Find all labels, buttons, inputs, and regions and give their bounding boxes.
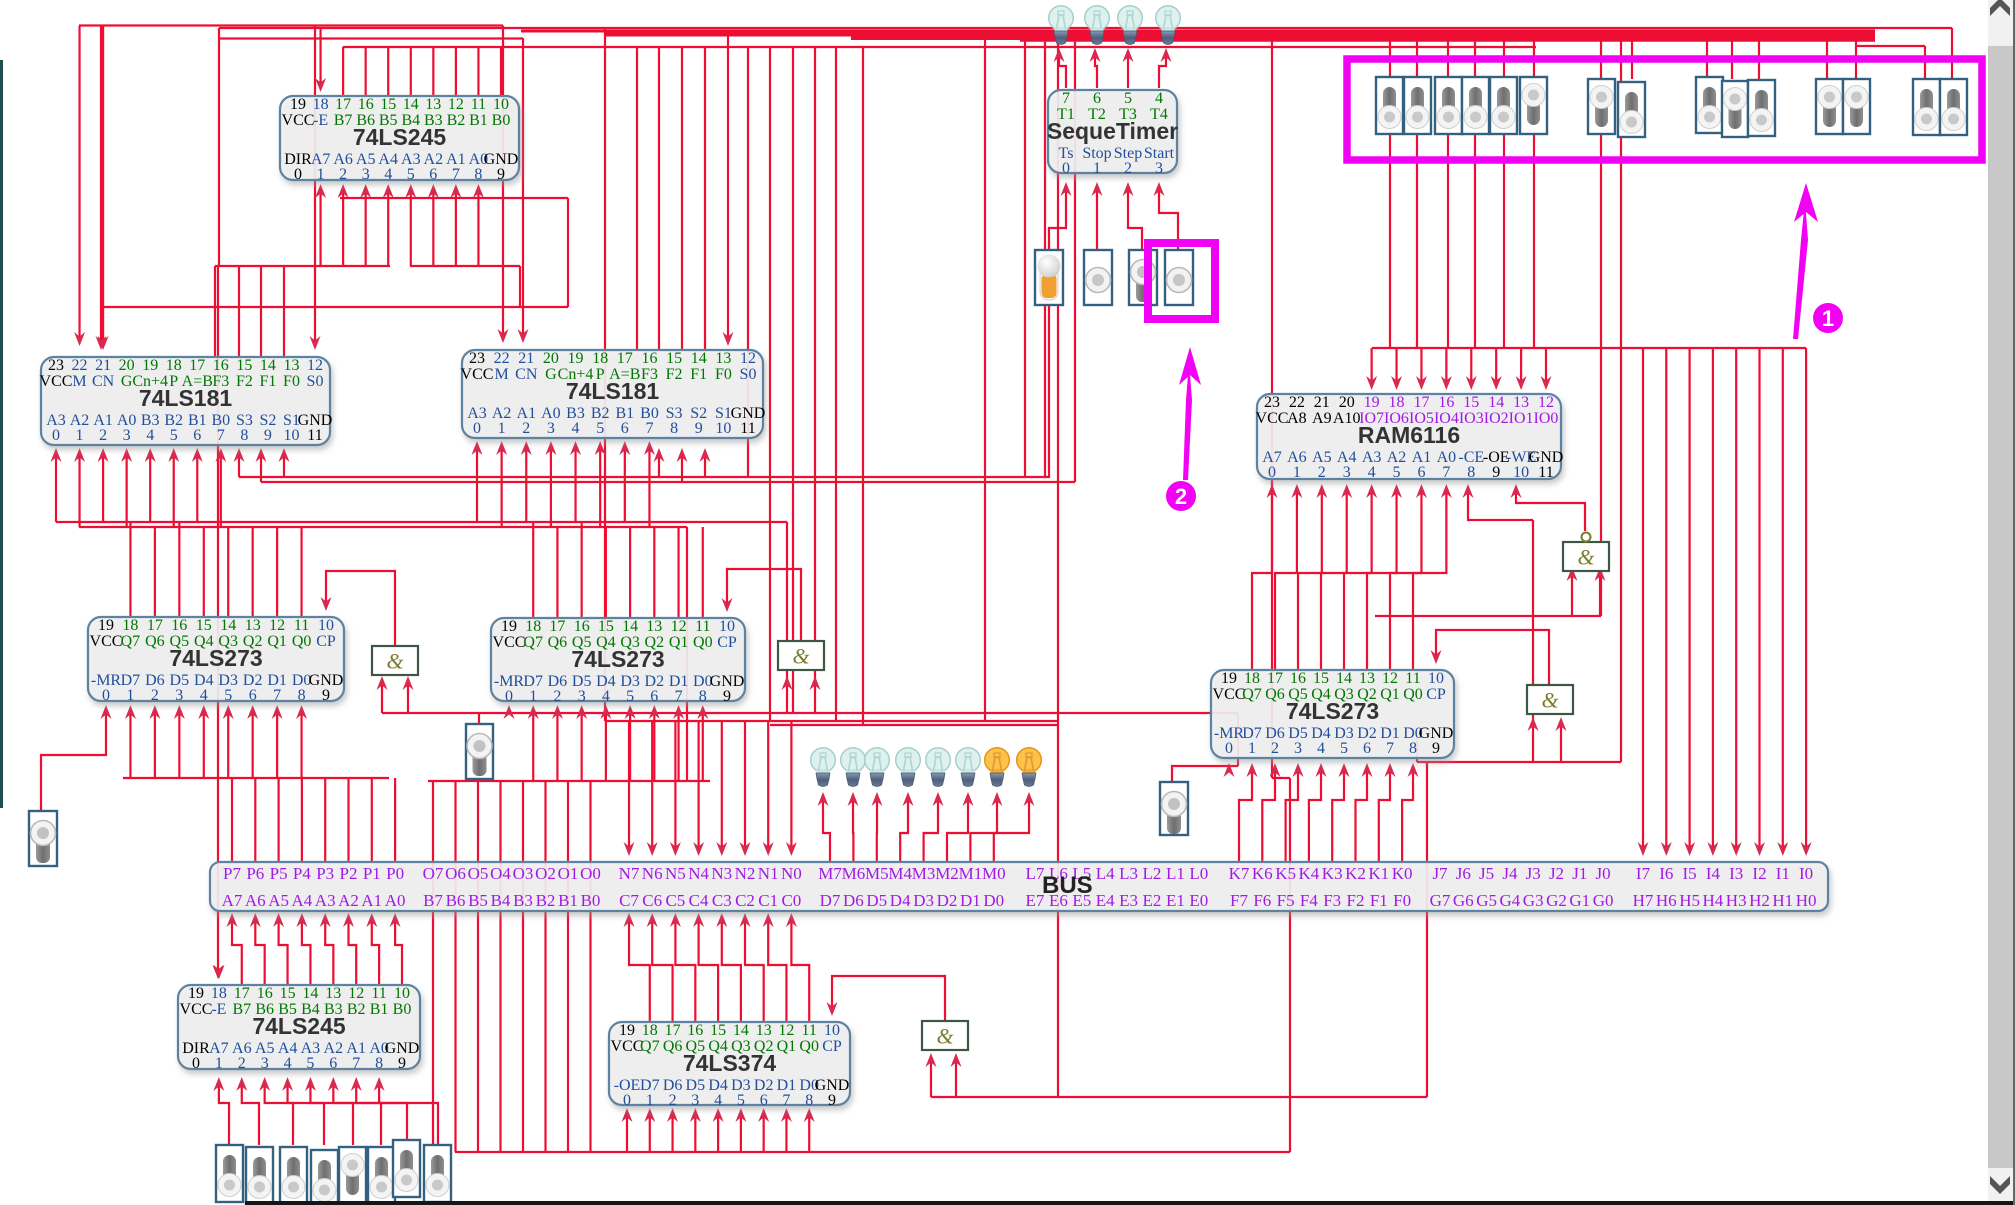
wire G2 output to 273#2 CP (727, 569, 801, 640)
switch S10 (1722, 81, 1748, 137)
annotation marker 2 (1166, 481, 1196, 511)
wire 181#2 F outputs to trunk y57 (636, 47, 638, 350)
lamp T2 (1085, 6, 1110, 45)
button Step (1129, 250, 1157, 305)
lamp T4 (1156, 6, 1181, 45)
wire trunk y1097 (G5) (931, 1096, 1427, 1098)
switch S14 (1913, 79, 1940, 135)
svg-text:1: 1 (1822, 306, 1834, 331)
wire 273#3 Q to RAM A pins (1252, 490, 1272, 670)
wire bus A group zigzag to 245#3 B pins (232, 919, 242, 985)
lamp M0 (1017, 748, 1042, 787)
wire BUS I feeds (1642, 348, 1644, 850)
IC 74LS245 U9 (178, 985, 420, 1069)
annotation arrow 2 (1183, 362, 1192, 480)
wire x1058 x1290 x1427 links (1289, 778, 1291, 1152)
button B3 (1160, 782, 1188, 835)
wire G1 output to 273#1 CP (326, 571, 395, 646)
wire 245#3 -E feed (214, 965, 225, 979)
switch S1 (1376, 77, 1403, 134)
wire RAM -CE feed from G3 riser (1468, 490, 1533, 520)
annotation rect 2 (1148, 243, 1215, 319)
wire G3 output to 273#3 CP (1436, 630, 1549, 685)
wire x1601 to G4 inputs (1600, 132, 1602, 616)
wire trunk y522/y527 (ALU inputs / 273 outputs) (56, 521, 787, 523)
annotation arrow 1 (1793, 200, 1808, 339)
lamp M7 (811, 748, 836, 787)
svg-text:2: 2 (1175, 484, 1187, 509)
switch S5 (1490, 77, 1517, 134)
svg-text:74LS273: 74LS273 (571, 646, 664, 672)
NAND gate G4 (1563, 533, 1609, 572)
switch D0 (424, 1145, 451, 1202)
IC 74LS181 U2 (41, 357, 330, 445)
switch S11 (1748, 80, 1775, 136)
svg-text:SequeTimer: SequeTimer (1047, 118, 1178, 144)
svg-text:74LS273: 74LS273 (169, 645, 262, 671)
wire comb trunk y348 (1372, 347, 1806, 349)
AND gate G2 (778, 641, 824, 670)
button Start (1165, 250, 1193, 305)
wire G1 inputs (381, 682, 383, 713)
IC 74LS273 U5 (491, 618, 745, 701)
switch S2 (1404, 77, 1431, 134)
wire button3 to -MR riser (1172, 766, 1229, 782)
button B2 (466, 724, 493, 779)
canvas left border (0, 60, 3, 808)
svg-text:&: & (386, 649, 404, 674)
wire trunk S-pins y477/y482 (239, 476, 1050, 478)
wire 273#3 -MR feed (1237, 713, 1239, 766)
lamp M6 (841, 748, 866, 787)
svg-text:74LS181: 74LS181 (566, 378, 660, 404)
wire bulbs to bus M (823, 798, 830, 862)
svg-text:BUS: BUS (1042, 872, 1093, 899)
button Stop (1084, 250, 1112, 305)
wire G2 inputs / trunk y713 (382, 712, 1238, 714)
wire switch up-wires to band (1389, 40, 1391, 80)
annotation rect 1 (1347, 59, 1982, 160)
svg-text:&: & (1577, 545, 1595, 570)
switch D3 (339, 1147, 366, 1204)
lamp T3 (1118, 6, 1143, 45)
lamp M5 (865, 748, 890, 787)
IC RAM6116 U7 (1257, 394, 1561, 479)
AND gate G5 (922, 1021, 968, 1050)
wire 374 D feeds from trunk (626, 1114, 628, 1152)
wire vertical band to trunk y266 (218, 28, 220, 266)
IC 74LS273 U4 (88, 617, 344, 701)
button B1 (29, 811, 57, 866)
wire bus C zigzag to 374 Q pins (629, 919, 650, 1022)
wire G5 output to 374 CP (832, 976, 945, 1021)
wire G4 output to RAM -WE (1516, 490, 1585, 531)
svg-text:RAM6116: RAM6116 (1358, 422, 1460, 448)
svg-text:74LS374: 74LS374 (683, 1050, 777, 1076)
AND gate G3 (1527, 685, 1573, 714)
wire trunk y266 (181#1 F outputs to 245#1 A pins) (215, 265, 390, 267)
switch S15 (1940, 79, 1967, 135)
svg-text:74LS245: 74LS245 (252, 1013, 346, 1039)
switch S12 (1816, 79, 1843, 134)
switch S13 (1843, 79, 1870, 134)
wire trunk y1157 (455, 1151, 1290, 1153)
wire trunk y307 (101, 306, 568, 308)
lamp M3 (926, 748, 951, 787)
wire trunk y266b (410, 265, 520, 267)
switch S7 (1588, 79, 1615, 134)
IC 74LS374 U8 (609, 1022, 850, 1105)
switch D7 (216, 1145, 243, 1202)
AND gate G1 (372, 646, 418, 675)
svg-text:&: & (936, 1024, 954, 1049)
switch S4 (1462, 77, 1489, 134)
wire x1621 to G3 inputs (1620, 40, 1622, 763)
wire button1 to 273#1 -MR (41, 711, 106, 811)
switch D6 (246, 1147, 273, 1204)
svg-text:74LS181: 74LS181 (139, 385, 233, 411)
wire 181#2 S0 feed (727, 34, 729, 340)
IC 74LS245 U1 (280, 96, 519, 180)
wire bottom switches to 245#3 A pins (219, 1083, 229, 1145)
wire 273#2 D trunk y781 (428, 780, 710, 782)
wire long vertical F3/-E chain x218 (217, 266, 219, 973)
lamp M1 (985, 748, 1010, 787)
svg-text:&: & (1541, 688, 1559, 713)
switch D4 (311, 1150, 338, 1205)
wire left verticals into 74LS181 #1 (78, 26, 80, 341)
wire SequeTimer T outputs to top bulbs (1059, 54, 1066, 88)
wire 273#1 D trunk y778 (123, 777, 389, 779)
switch Ts (on) (1035, 250, 1063, 305)
wire -E feed 74LS245 #1 (319, 28, 321, 86)
wire SequeTimer bottom feeds (1049, 188, 1066, 250)
switch S8 (1618, 82, 1645, 137)
vertical scrollbar (1988, 0, 2013, 1205)
annotation marker 1 (1813, 303, 1843, 333)
wire 245#1 B outputs up to band (342, 47, 344, 96)
wire switch group1 down to comb (1389, 135, 1391, 348)
BUS (210, 862, 1828, 911)
switch D1 (393, 1140, 420, 1197)
IC 74LS181 U3 (462, 350, 763, 438)
wire RAM IO feeds (1371, 348, 1373, 384)
wire top horizontal trunks (79, 24, 503, 26)
svg-text:74LS273: 74LS273 (1286, 698, 1379, 724)
lamp T1 (1049, 6, 1074, 45)
horizontal scrollbar (bottom) (245, 1201, 2013, 1205)
wire long mid verticals (604, 28, 606, 721)
wire trunk y721 / N feeds (605, 720, 1058, 722)
switch S6 (1520, 77, 1547, 134)
switch S9 (1696, 77, 1723, 133)
switch D2 (368, 1147, 395, 1204)
IC SequeTimer U10 (1048, 90, 1177, 173)
svg-text:74LS245: 74LS245 (353, 124, 447, 150)
wire bus K zigzag to 273#3 D pins (1239, 769, 1252, 862)
svg-text:&: & (792, 644, 810, 669)
lamp M2 (956, 748, 981, 787)
lamp M4 (896, 748, 921, 787)
switch S3 (1435, 77, 1462, 134)
wire 181#2 M CN feeds (502, 26, 504, 338)
wire O/B long verticals through bus (432, 781, 434, 1152)
switch D5 (280, 1147, 307, 1204)
IC 74LS273 U6 (1211, 670, 1454, 758)
